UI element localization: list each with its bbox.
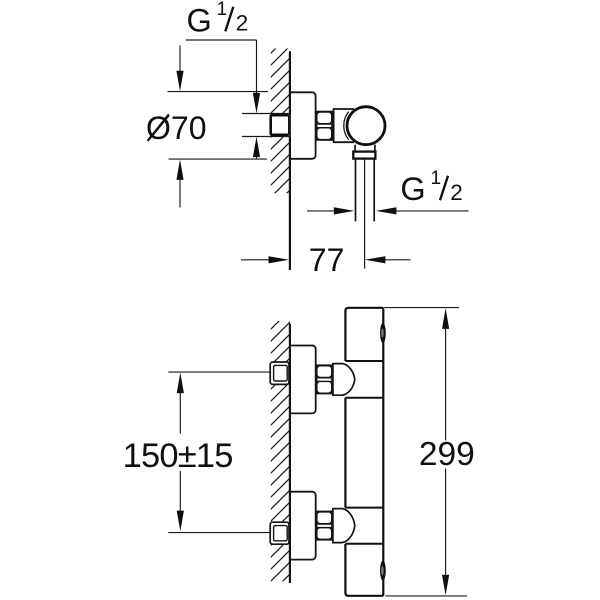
77 dim right line — [385, 259, 410, 261]
svg-text:1: 1 — [431, 168, 442, 189]
svg-text:1: 1 — [217, 0, 228, 20]
299 ext line top — [384, 307, 459, 309]
wall recess white notch — [272, 113, 291, 137]
G1/2 dim vertical — [256, 40, 258, 93]
escutcheon (top view) — [290, 92, 316, 159]
svg-text:299: 299 — [419, 436, 475, 473]
svg-text:G: G — [187, 2, 212, 38]
arrow 299 down — [442, 575, 449, 596]
150 dim lower tail — [179, 471, 181, 511]
valve body (top view) — [334, 109, 354, 142]
77 dim left line — [241, 259, 269, 261]
dia70 lower arrow line — [179, 180, 181, 208]
square union nut in wall — [271, 116, 288, 134]
upper square union nut — [270, 362, 289, 384]
lower square union nut — [270, 522, 289, 544]
299 ext line bottom — [385, 595, 467, 597]
wall face line over escutcheons — [289, 324, 291, 583]
upper union step lines — [345, 361, 383, 398]
collar ring — [353, 152, 375, 159]
upper union dome cover — [333, 364, 355, 396]
dia70 ext line bottom — [169, 158, 268, 160]
lower union dome cover — [333, 509, 355, 543]
svg-text:G: G — [400, 171, 425, 207]
upper escutcheon (front) — [290, 345, 316, 413]
arrows (filled) — [176, 71, 396, 264]
hose centre line — [364, 159, 366, 269]
299 dim line upper — [445, 329, 447, 441]
cap rim arc — [344, 112, 349, 140]
lower pivot screw — [380, 561, 386, 581]
arrow 299 up — [442, 308, 449, 329]
arrow G1/2b left — [376, 207, 397, 214]
150 ext line bottom — [168, 532, 270, 534]
arrow dia70 up — [176, 159, 183, 180]
upper pivot screw — [380, 323, 386, 343]
arrow 77 right — [269, 256, 290, 263]
text G 1/2 (top) — [187, 0, 249, 38]
arrow 150 down — [177, 511, 184, 532]
supply thread line top — [242, 113, 290, 115]
G1/2 leader line — [186, 39, 257, 41]
dia70 upper arrow line — [179, 46, 181, 72]
150 dim upper tail — [179, 393, 181, 434]
wall hatching (top view) — [271, 49, 290, 194]
arrow 150 up — [177, 373, 184, 394]
wall face line (bottom) — [289, 324, 291, 583]
text G 1/2 (second) — [400, 168, 462, 207]
G1/2 second dim left line — [307, 210, 334, 212]
svg-text:77: 77 — [309, 242, 345, 278]
svg-text:Ø70: Ø70 — [146, 110, 206, 146]
hex nut (top view) — [317, 112, 333, 140]
arrow G1/2b right — [334, 207, 355, 214]
neck below circle — [355, 145, 375, 152]
bar body fill — [345, 308, 383, 596]
dia70 ext line top — [168, 91, 269, 93]
150 ext line top — [168, 371, 270, 373]
wall face line upper segment — [289, 51, 291, 113]
G1/2 lower tail — [256, 157, 258, 160]
lower union step lines — [345, 508, 383, 544]
supply thread line bottom — [242, 136, 290, 138]
lower hex nut (front) — [317, 512, 333, 540]
arrow dia70 down — [176, 71, 183, 92]
arrow G1/2 down — [253, 93, 260, 114]
bar outline — [345, 308, 383, 596]
wall face line lower segment — [289, 136, 291, 270]
arrow 77 left — [365, 256, 386, 263]
lower escutcheon (front) — [290, 492, 316, 560]
wall face line over escutcheon edge — [289, 51, 291, 270]
svg-text:2: 2 — [450, 180, 463, 205]
299 dim line lower — [445, 469, 447, 575]
upper hex nut (front) — [317, 365, 333, 393]
G1/2 second dim right line — [396, 210, 468, 212]
thermostat circle (top view) — [347, 107, 385, 145]
arrow G1/2 up — [253, 137, 260, 158]
svg-text:150±15: 150±15 — [123, 437, 233, 475]
wall hatching (bottom view) — [271, 321, 290, 581]
svg-text:2: 2 — [236, 11, 249, 36]
outlet pipe sides — [356, 159, 375, 222]
